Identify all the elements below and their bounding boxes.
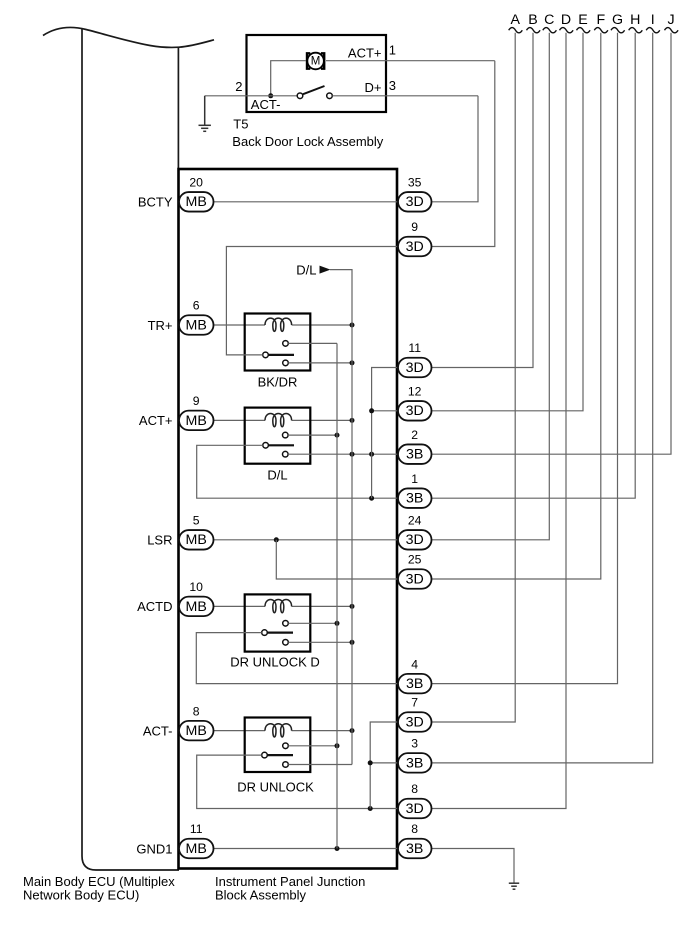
svg-text:4: 4 [411, 657, 418, 671]
node C [432, 12, 557, 540]
wire C to 3D-24 [432, 33, 550, 540]
svg-text:ACT-: ACT- [143, 723, 173, 738]
DR UNLOCK common contact [262, 752, 268, 758]
svg-text:LSR: LSR [147, 533, 172, 548]
wire: BK/DR coil to D/L trunk [292, 324, 352, 326]
DR UNLOCK D common contact [262, 630, 268, 636]
relay DR UNLOCK [237, 718, 314, 795]
ground symbol at T5 ACT- [199, 96, 211, 132]
wire: MB ACT+ to D/L coil [214, 419, 266, 421]
svg-text:Network Body ECU): Network Body ECU) [23, 887, 139, 902]
wire: MB ACTD to DR UNLOCK D coil [214, 605, 266, 607]
connector 3B pin 1 [398, 472, 432, 508]
svg-text:3B: 3B [406, 447, 423, 463]
svg-text:G: G [612, 12, 623, 28]
svg-text:5: 5 [193, 514, 200, 528]
svg-text:H: H [630, 12, 640, 28]
svg-text:B: B [528, 12, 537, 28]
svg-text:Back Door Lock Assembly: Back Door Lock Assembly [232, 134, 384, 149]
svg-text:I: I [651, 12, 655, 28]
svg-text:E: E [578, 12, 587, 28]
svg-text:2: 2 [411, 428, 418, 442]
wire: D/L upper throw to trunk A [288, 434, 337, 436]
node A [432, 12, 523, 722]
connector 3B pin 3 [398, 737, 432, 773]
svg-text:C: C [544, 12, 554, 28]
Main Body ECU outline (torn wavy top) [43, 27, 214, 870]
DR UNLOCK lower throw contact [283, 762, 289, 768]
DR UNLOCK D lower throw contact [283, 640, 289, 646]
DR UNLOCK D switch bar [267, 631, 293, 633]
connector 3D pin 8 [398, 782, 432, 818]
svg-text:24: 24 [408, 514, 422, 528]
connector 3D pin 35 [398, 176, 432, 212]
svg-text:35: 35 [408, 176, 422, 190]
wire: MB TR+ to BK/DR coil [214, 324, 266, 326]
connector MB pin 10 (ACTD) [137, 580, 213, 616]
svg-text:3: 3 [389, 78, 396, 93]
svg-text:9: 9 [411, 220, 418, 234]
trunk D : 3D-7, 3B-3, 3D-8 net [370, 722, 398, 809]
wire: D+ pin 3 out to right [332, 95, 478, 97]
svg-text:A: A [510, 12, 520, 28]
wire: 3D-9 to BK/DR common [226, 247, 398, 355]
connector 3B pin 4 [398, 657, 432, 693]
svg-text:11: 11 [190, 822, 203, 836]
BK/DR lower throw contact [283, 360, 289, 366]
node G [432, 12, 625, 684]
wire: 3B-3 stub to trunk D [370, 762, 398, 764]
svg-text:T5: T5 [233, 117, 248, 132]
node D [432, 12, 574, 809]
svg-text:ACTD: ACTD [137, 599, 172, 614]
connector MB pin 11 (GND1) [136, 822, 213, 858]
svg-text:BK/DR: BK/DR [258, 374, 298, 389]
wire G to 3B-4 [432, 33, 618, 684]
wire: DR UNLOCK D common to 3B-4 [196, 633, 398, 684]
svg-text:MB: MB [186, 532, 207, 548]
svg-text:12: 12 [408, 385, 422, 399]
connector 3B pin 8 [398, 822, 432, 858]
svg-text:DR UNLOCK: DR UNLOCK [237, 780, 314, 795]
connector 3D pin 9 [398, 220, 432, 256]
svg-text:3: 3 [411, 737, 418, 751]
coil DR UNLOCK [265, 724, 292, 737]
wire E to 3D-12 [432, 33, 584, 411]
svg-text:MB: MB [186, 317, 207, 333]
svg-text:TR+: TR+ [148, 318, 173, 333]
svg-text:11: 11 [408, 341, 421, 355]
trunk B : D/L net vertical [330, 270, 352, 765]
connector MB pin 20 (BCTY) [138, 176, 214, 212]
coil D/L [265, 414, 292, 427]
svg-text:3B: 3B [406, 676, 423, 692]
svg-text:3D: 3D [406, 571, 424, 587]
svg-text:1: 1 [389, 43, 396, 58]
svg-text:J: J [667, 12, 674, 28]
wire: DR UNLOCK coil to D/L trunk [292, 730, 352, 732]
svg-text:D: D [561, 12, 571, 28]
wire: motor left lead down to ACT- node [271, 61, 306, 96]
connector 3D pin 7 [398, 696, 432, 732]
node F [432, 12, 608, 579]
junction dot LSR branch [274, 537, 279, 542]
DR UNLOCK switch bar [267, 754, 293, 756]
wire: MB LSR to 3D-24 [214, 539, 399, 541]
DR UNLOCK D upper throw contact [283, 621, 289, 627]
trunk C : 3D-11/12, 3B-2/1 net [372, 368, 398, 499]
connector 3D pin 11 [398, 341, 432, 377]
svg-text:D/L: D/L [296, 262, 316, 277]
wire: D+ pin3 down to 3D-35 [432, 96, 479, 202]
wire: MB GND1 to 3B-8 [214, 848, 399, 850]
svg-text:MB: MB [186, 841, 207, 857]
svg-text:MB: MB [186, 413, 207, 429]
svg-text:3D: 3D [406, 239, 424, 255]
wire: MB BCTY row to 3D-35 [214, 201, 399, 203]
wire: DR UNLOCK D lower throw to D/L trunk [288, 641, 352, 643]
svg-text:10: 10 [189, 580, 203, 594]
svg-text:9: 9 [193, 394, 200, 408]
svg-text:8: 8 [411, 822, 418, 836]
wire: 3D-12 stub to trunk C [372, 410, 398, 412]
svg-text:3D: 3D [406, 714, 424, 730]
DR UNLOCK upper throw contact [283, 743, 289, 749]
wire J to 3B-2 [432, 33, 672, 454]
svg-text:8: 8 [411, 782, 418, 796]
svg-text:D+: D+ [365, 80, 382, 95]
svg-text:MB: MB [186, 599, 207, 615]
ground symbol at 3B-8 [509, 883, 519, 889]
switch contact left [297, 93, 303, 99]
wire: MB ACT- to DR UNLOCK coil [214, 730, 266, 732]
wire: D/L common to 3B-1 [197, 445, 398, 498]
node I [432, 12, 660, 763]
svg-text:GND1: GND1 [136, 841, 172, 856]
svg-text:25: 25 [408, 553, 422, 567]
Instrument Panel Junction Block Assembly box [179, 169, 398, 869]
wire: BK/DR lower throw to D/L trunk [288, 362, 352, 364]
svg-text:3D: 3D [406, 403, 424, 419]
BK/DR switch bar [268, 354, 294, 356]
D/L lower throw contact [283, 451, 289, 457]
svg-text:D/L: D/L [267, 468, 287, 483]
wire: DR UNLOCK D upper throw to trunk A [288, 622, 337, 624]
coil BK/DR [265, 318, 292, 331]
svg-text:DR UNLOCK D: DR UNLOCK D [230, 655, 320, 670]
Back Door Lock Assembly box T5 [247, 35, 387, 112]
svg-text:3B: 3B [406, 755, 423, 771]
connector 3B pin 2 [398, 428, 432, 464]
svg-text:3B: 3B [406, 491, 423, 507]
svg-text:MB: MB [186, 723, 207, 739]
coil DR UNLOCK D [265, 600, 292, 613]
svg-text:3D: 3D [406, 360, 424, 376]
switch contact right [327, 93, 333, 99]
node H [432, 12, 643, 498]
BK/DR common contact [263, 352, 269, 358]
connector 3D pin 24 [398, 514, 432, 550]
svg-text:M: M [311, 56, 321, 68]
svg-text:BCTY: BCTY [138, 195, 173, 210]
wire: ACT- row from ground stub through box to switch [205, 95, 298, 97]
svg-text:1: 1 [411, 472, 418, 486]
connector MB pin 9 (ACT+) [139, 394, 214, 430]
wire H to 3B-1 [432, 33, 636, 498]
svg-text:2: 2 [235, 79, 242, 94]
wire A to 3D-7 [432, 33, 516, 722]
svg-text:6: 6 [193, 299, 200, 313]
connector MB pin 8 (ACT-) [143, 704, 214, 740]
svg-text:3B: 3B [406, 841, 423, 857]
motor M (back door lock motor) [307, 53, 324, 70]
svg-text:20: 20 [189, 176, 203, 190]
trunk A (upper throws to GND1) [336, 343, 338, 848]
wire: motor right lead ACT+ pin 1 out to right [326, 60, 495, 62]
wire: ACT+ pin1 down to 3D-9 [432, 61, 495, 247]
wire F to 3D-25 [432, 33, 601, 579]
svg-text:Block Assembly: Block Assembly [215, 887, 307, 902]
svg-text:F: F [596, 12, 605, 28]
relay BK/DR [245, 314, 311, 390]
wire: DR UNLOCK common to 3D-8 [197, 755, 398, 808]
wire: LSR branch to 3D-25 [276, 540, 398, 579]
wire I to 3B-3 [432, 33, 653, 763]
D/L common contact [263, 443, 269, 449]
svg-text:MB: MB [186, 194, 207, 210]
connector MB pin 5 (LSR) [147, 514, 213, 550]
wire: D/L coil to D/L trunk [292, 419, 352, 421]
connector MB pin 6 (TR+) [148, 299, 214, 335]
D/L switch bar [269, 444, 295, 446]
wire B to 3D-11 [432, 33, 534, 368]
wire: DR UNLOCK D coil to D/L trunk [292, 605, 352, 607]
wire D to 3D-8 [432, 33, 567, 809]
wire: DR UNLOCK upper throw to trunk A [288, 745, 337, 747]
node B [432, 12, 541, 368]
svg-text:ACT-: ACT- [251, 97, 281, 112]
connector 3D pin 12 [398, 385, 432, 421]
svg-text:3D: 3D [406, 532, 424, 548]
node E [432, 12, 591, 411]
svg-text:7: 7 [411, 696, 418, 710]
relay D/L [245, 408, 311, 483]
svg-text:3D: 3D [406, 801, 424, 817]
junction dot GND1 / trunk A [335, 846, 340, 851]
svg-text:8: 8 [193, 704, 200, 718]
connector 3D pin 25 [398, 553, 432, 589]
BK/DR upper throw contact [283, 341, 289, 347]
svg-text:ACT+: ACT+ [348, 45, 382, 60]
D/L upper throw contact [283, 432, 289, 438]
switch lever [303, 86, 325, 94]
relay DR UNLOCK D [230, 594, 320, 669]
svg-text:ACT+: ACT+ [139, 413, 173, 428]
junction dot on ACT- wire [268, 93, 273, 98]
wire: DR UNLOCK lower throw to D/L trunk bottom [288, 764, 352, 766]
svg-text:3D: 3D [406, 194, 424, 210]
wire: 3B-8 to ground [432, 849, 515, 884]
wire: BK/DR upper throw to trunk A [288, 342, 337, 344]
wire: D/L lower throw to 3B-2 [288, 453, 398, 455]
node J [432, 12, 679, 454]
